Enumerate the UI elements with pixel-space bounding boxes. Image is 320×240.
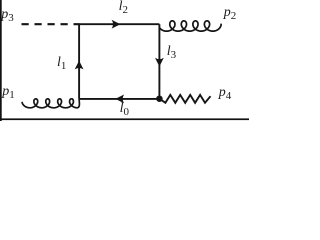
node label p3 (1, 8, 14, 22)
propagator p4 photon zigzag (160, 95, 210, 103)
node label l3 (167, 45, 176, 59)
propagator p2 gluon coil (159, 21, 221, 31)
feynman diagram canvas (0, 0, 249, 126)
vertex dot (156, 95, 163, 102)
arrow on l0 (left) (115, 95, 124, 104)
node label p4 (219, 86, 232, 100)
wire l0 bottom fermion line (79, 98, 159, 100)
node label p1 (2, 85, 15, 99)
propagator p1 gluon coil (22, 99, 79, 108)
wire l1 left fermion line (78, 24, 80, 99)
node label l2 (119, 0, 128, 14)
arrow on l2 (right) (112, 20, 121, 29)
frame left edge (0, 0, 2, 121)
wire l2 top fermion line (79, 23, 159, 25)
frame bottom edge (0, 118, 249, 120)
arrow on l3 (down) (155, 58, 164, 67)
node label l1 (57, 56, 66, 70)
propagator p3 dashed scalar line (22, 23, 80, 25)
wire l3 right fermion line (158, 24, 160, 99)
node label l0 (120, 102, 129, 116)
arrow on l1 (up) (75, 61, 84, 70)
node label p2 (224, 6, 237, 20)
